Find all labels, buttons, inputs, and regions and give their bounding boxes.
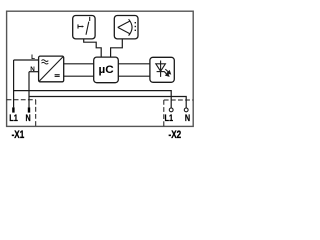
svg-text:-X2: -X2 [169,129,182,141]
svg-text:N: N [30,66,35,73]
dashed terminal zone X1 [7,100,36,127]
sensor icon B1 (triangle with arc) [118,19,132,35]
svg-text:N: N [26,113,31,124]
wire PSU to uC upper [64,63,94,65]
LED icon V1 [156,61,166,77]
sensor box B1 [114,16,138,39]
microcontroller U2 [94,57,119,83]
wire L1 rail to X2 [14,91,172,109]
pushbutton actuator arrowhead [82,25,84,27]
wire N input to PSU [29,71,39,73]
svg-text:N: N [185,113,190,124]
power supply AC symbol [42,60,49,64]
terminal X1 L1 [12,107,14,112]
svg-text:L: L [31,54,35,61]
wire L vertical to terminal [13,60,15,107]
wire sensor to uC [111,39,123,57]
wire N vertical to terminal [28,72,30,108]
pushbutton icon S1 [78,17,90,35]
svg-text:L1: L1 [165,113,174,124]
wire N rail to X2 [29,97,186,109]
dashed terminal zone X2 [164,100,193,127]
terminal X2 L1 socket [169,108,173,112]
sensor icon dots [135,22,136,31]
svg-text:-X1: -X1 [12,129,25,141]
LED emission arrows [164,69,170,76]
power supply U1 [39,56,64,82]
wire L input to PSU [14,59,39,61]
wire PSU to uC lower [64,75,94,77]
terminal X1 N [28,107,30,112]
svg-text:µC: µC [99,64,115,76]
device outline frame [7,11,194,126]
power supply DC symbol [55,75,60,77]
wire pushbutton to uC [84,39,102,57]
svg-text:L1: L1 [9,113,18,124]
wire uC to LED upper [118,63,150,65]
LED output box V1 [150,57,174,82]
pushbutton box S1 [73,16,95,39]
power supply diagonal [40,57,63,81]
terminal X2 N socket [184,108,188,112]
wire uC to LED lower [118,75,150,77]
